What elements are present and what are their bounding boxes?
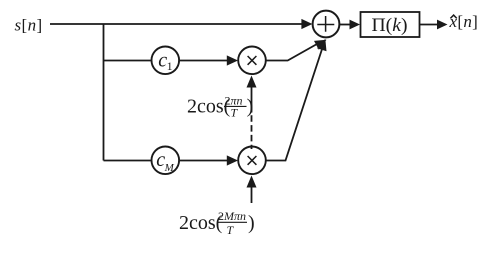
wire cM to multiplier XM <box>179 155 238 165</box>
node xhat[n] output label <box>449 12 479 31</box>
wire multiplier X1 to adder <box>266 40 327 61</box>
svg-text:2Mπn: 2Mπn <box>218 209 246 223</box>
wire vertical branch trunk <box>103 24 105 161</box>
svg-text:): ) <box>247 96 254 118</box>
wire multiplier XM to adder <box>266 39 327 161</box>
svg-text:2cos(: 2cos( <box>179 212 223 234</box>
svg-text:M: M <box>164 162 175 174</box>
carrier arrow into multiplier XM <box>247 176 257 204</box>
carrier label 2cos(2pi n / T) <box>187 94 253 120</box>
wire adder to filter box <box>340 20 360 30</box>
carrier arrow into multiplier X1 (solid top, dashed below) <box>247 76 257 150</box>
wire main horizontal s[n] to adder <box>50 19 312 29</box>
filter block Pi(k) <box>361 12 420 37</box>
wire c1 to multiplier X1 <box>179 55 238 65</box>
adder <box>313 11 340 38</box>
node s[n] input label <box>15 16 43 35</box>
multiplier XM <box>238 147 266 175</box>
svg-text:): ) <box>248 212 255 234</box>
multiplier X1 <box>238 47 266 75</box>
wire branch M to cM <box>104 160 152 162</box>
wire filter box to output <box>420 20 448 30</box>
gain block c1 <box>152 47 180 75</box>
carrier label 2cos(2M pi n / T) <box>179 209 255 237</box>
svg-text:Π(k): Π(k) <box>372 15 408 36</box>
svg-text:1: 1 <box>167 59 173 73</box>
gain block cM <box>152 147 180 175</box>
svg-text:s[n]: s[n] <box>15 16 43 35</box>
wire branch 1 to c1 <box>104 60 152 62</box>
